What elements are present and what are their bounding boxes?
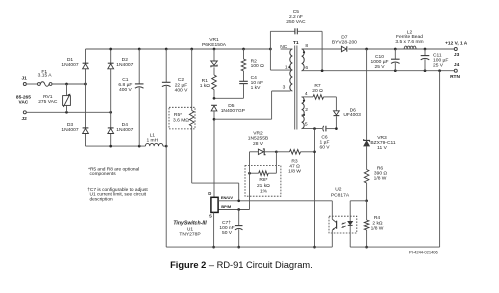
polarity dot bias 2: [303, 114, 305, 116]
diode D5: [211, 103, 245, 119]
svg-text:50 V: 50 V: [222, 230, 233, 236]
transformer primary winding: [290, 49, 293, 91]
svg-text:VAC: VAC: [19, 99, 29, 105]
wire bias return: [313, 129, 316, 249]
svg-text:100 Ω: 100 Ω: [251, 63, 265, 69]
svg-text:EN/UV: EN/UV: [221, 195, 234, 200]
svg-text:3.15 A: 3.15 A: [38, 73, 53, 79]
resistor R8: [245, 152, 281, 196]
wire source: [212, 212, 215, 248]
terminal J4: [450, 62, 460, 80]
svg-text:10 nF: 10 nF: [251, 80, 264, 86]
svg-text:400 V: 400 V: [119, 87, 133, 93]
svg-text:J1: J1: [22, 75, 28, 81]
transformer secondary winding: [302, 49, 305, 71]
svg-text:28 V: 28 V: [253, 141, 264, 147]
svg-text:4: 4: [305, 91, 308, 97]
optocoupler U2: [329, 187, 357, 233]
svg-text:BYV28-200: BYV28-200: [332, 39, 357, 45]
varistor RV1: [38, 84, 70, 112]
polarity dot secondary: [303, 51, 305, 53]
svg-text:2 kΩ: 2 kΩ: [372, 220, 383, 226]
terminal J2: [22, 111, 28, 122]
resistor R7: [302, 83, 337, 99]
svg-text:100 µF: 100 µF: [433, 58, 448, 64]
svg-text:3.5 x 7.6 mm: 3.5 x 7.6 mm: [395, 39, 423, 45]
svg-text:C10: C10: [375, 54, 384, 60]
inductor L2: [395, 29, 423, 49]
capacitor C4: [239, 71, 263, 98]
svg-text:C2: C2: [178, 77, 185, 83]
diode D2: [108, 57, 134, 69]
svg-text:C7†: C7†: [222, 220, 231, 226]
svg-text:R5*: R5*: [174, 112, 182, 118]
wire R2C4 to D5 node: [213, 97, 244, 100]
svg-text:1/8 W: 1/8 W: [288, 169, 301, 175]
svg-text:R6: R6: [377, 165, 384, 171]
svg-text:250 VAC: 250 VAC: [286, 19, 306, 25]
polarity dot bias 1: [303, 100, 305, 102]
svg-text:390 Ω: 390 Ω: [374, 171, 388, 177]
wire bridge left column: [85, 49, 87, 146]
transformer T1 core: [293, 40, 299, 130]
svg-text:1 kΩ: 1 kΩ: [200, 83, 211, 89]
pin 1 label: [285, 64, 288, 70]
svg-text:5: 5: [305, 121, 308, 127]
svg-text:3.6 MΩ: 3.6 MΩ: [173, 118, 189, 124]
svg-text:C5: C5: [293, 9, 300, 15]
IC U1 TinySwitch: [173, 191, 233, 237]
svg-text:400 V: 400 V: [175, 87, 189, 93]
wire EN/UV: [218, 199, 332, 216]
svg-text:1000 µF: 1000 µF: [370, 59, 388, 65]
pin 2 stub: [302, 114, 305, 116]
svg-text:U2: U2: [335, 187, 342, 193]
svg-text:TNY278P: TNY278P: [179, 231, 200, 237]
svg-text:1: 1: [285, 64, 288, 70]
svg-text:8: 8: [305, 43, 308, 49]
svg-text:1N4007GP: 1N4007GP: [221, 108, 245, 114]
svg-text:VR3: VR3: [377, 135, 387, 141]
diode D7: [332, 35, 357, 52]
svg-text:1N5255B: 1N5255B: [248, 136, 268, 142]
svg-text:C4: C4: [251, 75, 258, 81]
svg-text:1%: 1%: [260, 188, 268, 194]
svg-text:J2: J2: [22, 116, 28, 122]
svg-text:NC: NC: [280, 44, 288, 50]
pin 4 label: [305, 91, 308, 97]
wire fuse to bridge: [52, 83, 87, 86]
svg-text:RTN: RTN: [450, 74, 460, 80]
capacitor C7: [219, 210, 242, 249]
svg-text:20 Ω: 20 Ω: [312, 88, 323, 94]
svg-text:R3: R3: [291, 158, 298, 164]
label PI number: [409, 250, 438, 255]
resistor R1: [200, 67, 217, 98]
zener VR2: [248, 131, 278, 155]
wire feedback node: [350, 199, 368, 216]
wire DC+ top rail: [86, 48, 272, 51]
wire RTN rail: [302, 69, 455, 72]
svg-text:6.8 µF: 6.8 µF: [118, 82, 132, 88]
svg-text:Figure 2 – RD-91 Circuit Diagr: Figure 2 – RD-91 Circuit Diagram.: [170, 260, 313, 270]
diode D3: [61, 122, 88, 134]
polarity dot primary: [288, 66, 290, 68]
svg-text:BP/M: BP/M: [221, 204, 232, 209]
svg-text:275 VAC: 275 VAC: [38, 99, 58, 105]
svg-text:11 V: 11 V: [377, 145, 387, 151]
resistor R5: [169, 49, 195, 183]
resistor R2: [241, 49, 264, 71]
svg-text:components: components: [90, 171, 117, 177]
svg-text:22 µF: 22 µF: [175, 82, 188, 88]
svg-text:J3: J3: [454, 52, 460, 58]
wire J1 to fuse: [26, 83, 37, 85]
transformer bias winding: [302, 97, 305, 129]
capacitor C2: [162, 49, 188, 146]
diode D6: [334, 97, 362, 129]
terminal J1: [22, 75, 28, 85]
svg-text:R4: R4: [374, 215, 381, 221]
svg-text:1 mH: 1 mH: [146, 137, 158, 143]
svg-text:R8*: R8*: [259, 177, 267, 183]
resistor R6: [364, 146, 387, 201]
svg-text:1/8 W: 1/8 W: [371, 225, 384, 231]
resistor R3: [276, 150, 314, 175]
svg-text:25 V: 25 V: [374, 64, 385, 70]
svg-text:1 kV: 1 kV: [251, 85, 262, 91]
svg-text:C1: C1: [122, 77, 129, 83]
svg-text:1N4007: 1N4007: [61, 62, 78, 68]
caption Figure 2: [170, 260, 313, 270]
TVS VR1: [202, 37, 227, 67]
capacitor C10: [370, 49, 399, 71]
svg-text:2.2 nF: 2.2 nF: [289, 14, 303, 20]
diode D4: [108, 122, 134, 134]
wire VR2 to BP/M: [218, 152, 249, 211]
svg-text:VR2: VR2: [253, 131, 263, 137]
wire DC+ to pin 1: [270, 49, 292, 70]
resistor R4: [364, 201, 383, 249]
svg-text:+12 V, 1 A: +12 V, 1 A: [445, 41, 468, 47]
capacitor C1: [118, 49, 143, 146]
pin 2 label: [305, 107, 308, 113]
svg-text:1N4007: 1N4007: [116, 62, 133, 68]
zener VR3: [364, 49, 396, 151]
pin 3 label: [283, 85, 286, 91]
wire secondary bottom rail: [350, 71, 439, 247]
svg-text:1/8 W: 1/8 W: [374, 176, 387, 182]
svg-text:S: S: [209, 214, 212, 219]
svg-text:description: description: [90, 197, 114, 203]
svg-text:P6KE150A: P6KE150A: [202, 42, 227, 48]
svg-text:1N4007: 1N4007: [116, 127, 133, 133]
svg-text:47 Ω: 47 Ω: [289, 164, 300, 170]
wire R5 to EN/UV: [192, 183, 239, 201]
wire secondary top rail: [302, 48, 455, 51]
footnote optional components: [88, 166, 139, 177]
wire J2 to bridge: [26, 111, 112, 114]
svg-text:TinySwitch-III: TinySwitch-III: [173, 220, 207, 226]
terminal J3: [445, 41, 468, 58]
svg-text:6: 6: [305, 65, 308, 71]
diode D1: [61, 57, 88, 69]
svg-text:PC817A: PC817A: [331, 192, 350, 198]
label 85-265 VAC: [16, 95, 31, 106]
svg-text:C6: C6: [321, 134, 328, 140]
svg-text:3: 3: [283, 85, 286, 91]
capacitor C6: [302, 126, 338, 151]
svg-text:60 V: 60 V: [319, 145, 330, 151]
svg-text:PI-4244-021406: PI-4244-021406: [409, 250, 438, 255]
footnote C7: [87, 187, 148, 203]
svg-text:25 V: 25 V: [433, 63, 444, 69]
wire C2 node down to source rail: [165, 146, 167, 247]
svg-text:UF4003: UF4003: [343, 112, 361, 118]
wire bridge right column: [110, 49, 112, 146]
svg-text:T1: T1: [293, 40, 299, 46]
capacitor C11: [421, 49, 449, 71]
svg-text:1 µF: 1 µF: [320, 140, 330, 146]
fuse F1: [38, 69, 53, 86]
pin 5 label: [305, 121, 308, 127]
svg-text:21 kΩ: 21 kΩ: [257, 183, 270, 189]
wire NC stub: [280, 44, 292, 50]
capacitor C5: [270, 9, 322, 71]
wire primary source rail: [166, 233, 332, 247]
svg-text:100 nF: 100 nF: [219, 225, 234, 231]
svg-text:C11: C11: [433, 52, 442, 58]
svg-text:2: 2: [305, 107, 308, 113]
svg-text:D: D: [208, 191, 211, 196]
wire bridge bottom rail: [86, 145, 168, 148]
svg-text:BZX79-C11: BZX79-C11: [370, 140, 395, 146]
pin 6 label: [305, 65, 308, 71]
svg-text:J4: J4: [454, 62, 460, 68]
inductor L1: [145, 133, 163, 147]
pin 8 label: [305, 43, 308, 49]
svg-text:1N4007: 1N4007: [61, 127, 78, 133]
wire drain node: [213, 91, 291, 197]
